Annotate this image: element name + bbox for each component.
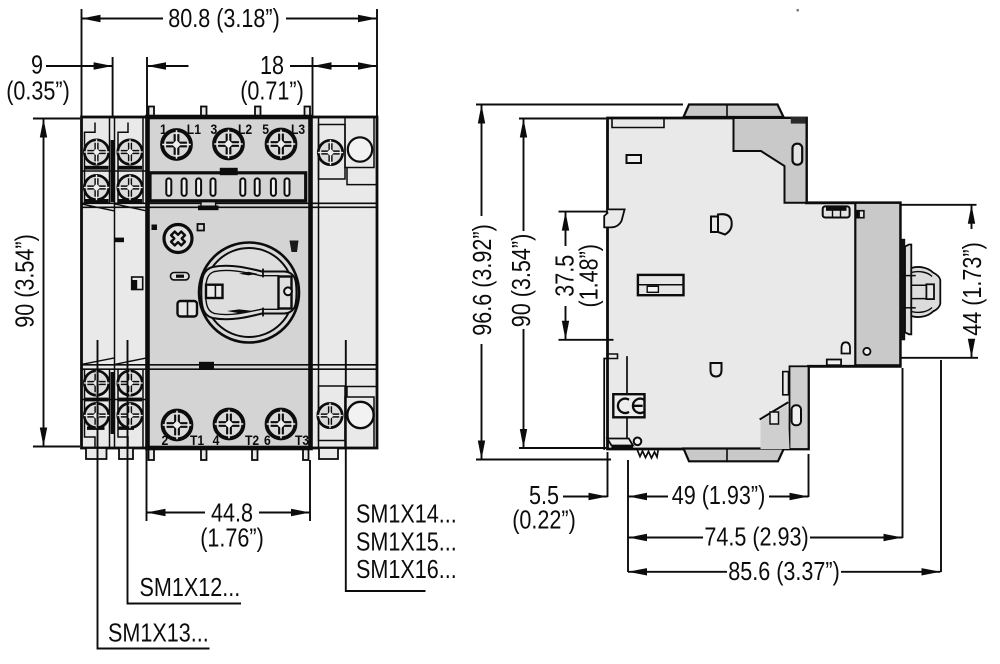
right col circle pocket top xyxy=(345,117,377,185)
screw col2 row4 xyxy=(118,403,142,427)
clip diagonal xyxy=(761,403,788,419)
arrow 49 right xyxy=(790,493,809,500)
CE letter E xyxy=(633,399,643,413)
upper-right dark panel xyxy=(734,118,807,203)
page artifact dot xyxy=(797,9,799,11)
dim 85.6 line xyxy=(628,571,941,573)
knob ledge bottom xyxy=(903,307,915,309)
svg-text:(0.71”): (0.71”) xyxy=(240,77,304,106)
terminal screw T1 xyxy=(163,411,192,440)
arrow 96.6 bottom xyxy=(478,441,485,460)
svg-text:(0.35”): (0.35”) xyxy=(6,77,70,106)
lower column slot xyxy=(792,405,801,425)
arrow 5.5 left xyxy=(589,493,608,500)
svg-text:L3: L3 xyxy=(291,122,305,138)
dim 74.5 line xyxy=(628,537,903,539)
clip dark region xyxy=(761,405,790,449)
dim 18 line xyxy=(290,65,377,67)
top pin 2 xyxy=(201,107,207,118)
cup icon mid xyxy=(711,363,722,377)
left col tiny dashes xyxy=(115,238,125,243)
rail release slider xyxy=(638,275,684,295)
column chamfer top left2 xyxy=(115,204,147,211)
dim 90 side extensions xyxy=(519,119,606,449)
arrow 90 side top xyxy=(520,119,527,138)
svg-text:49 (1.93”): 49 (1.93”) xyxy=(672,481,765,510)
central module panel xyxy=(148,117,311,448)
top pin 3 xyxy=(255,107,261,118)
lever tick top xyxy=(262,270,264,277)
arrow 96.6 top xyxy=(478,105,485,124)
housing cup icon xyxy=(842,342,851,353)
hook icon xyxy=(711,214,732,234)
bottom pin 1 xyxy=(149,448,155,460)
top-right slot xyxy=(793,144,803,165)
lower right column xyxy=(790,366,809,449)
screw col1 row4 xyxy=(84,403,108,427)
top pin 4 xyxy=(305,107,311,118)
svg-text:2: 2 xyxy=(162,432,169,448)
arrow 90 front bottom xyxy=(40,428,47,447)
arrow 85.6 left xyxy=(628,568,647,575)
dim 80.8 extension left xyxy=(81,9,83,117)
terminal screw L1 xyxy=(162,130,191,159)
vent slots group B xyxy=(240,178,289,196)
knob cone inner line bottom xyxy=(911,308,931,312)
clip bar front xyxy=(612,446,634,450)
double rail line upper xyxy=(82,203,378,207)
knob cone xyxy=(911,267,940,317)
terminal screw L3 xyxy=(267,130,296,159)
top bump xyxy=(684,105,784,118)
arrow 49 left xyxy=(628,493,647,500)
svg-text:SM1X13...: SM1X13... xyxy=(108,619,209,648)
dim 44 extensions xyxy=(901,205,979,358)
svg-text:L2: L2 xyxy=(238,122,252,138)
right column inner line xyxy=(318,117,320,448)
arrow 18 left xyxy=(313,62,332,69)
svg-text:(0.22”): (0.22”) xyxy=(512,505,576,534)
svg-text:L1: L1 xyxy=(187,122,201,138)
small latch box xyxy=(178,301,198,317)
lower column notch xyxy=(783,372,789,395)
arrow 37.5 top xyxy=(562,212,569,231)
screw col2 row1 xyxy=(118,140,142,164)
svg-text:90 (3.54”): 90 (3.54”) xyxy=(507,234,536,327)
right col circle top xyxy=(348,137,372,161)
dim 96.6 line xyxy=(481,105,483,460)
svg-text:(1.76”): (1.76”) xyxy=(200,524,264,553)
bottom pin 4 xyxy=(303,448,309,460)
lever tick bottom xyxy=(262,309,264,316)
leader SM1X12 xyxy=(128,340,242,604)
double rail line lower xyxy=(82,365,378,369)
arrow 44.8 right xyxy=(291,509,310,516)
knob housing light part top line xyxy=(807,202,901,204)
svg-text:74.5 (2.93): 74.5 (2.93) xyxy=(704,523,808,552)
housing tiny square xyxy=(856,211,864,218)
dim 5.5 extensions xyxy=(607,452,609,497)
bottom pin 2 xyxy=(201,448,207,460)
knob lever inner top line xyxy=(215,270,279,275)
lever dark sliver bottom xyxy=(227,309,252,313)
terminal screw T3 xyxy=(267,410,296,439)
terminal pocket col1 top xyxy=(85,117,110,203)
left col half-dark box xyxy=(132,277,143,290)
bottom bump divider xyxy=(726,449,728,461)
body small rect icon top left xyxy=(627,155,642,163)
svg-text:T2: T2 xyxy=(245,433,259,449)
arrow 9 right xyxy=(147,62,166,69)
right col screw pocket top xyxy=(319,125,346,180)
front body base plate xyxy=(82,117,378,448)
knob outer ring xyxy=(199,243,299,343)
black tab below bridge xyxy=(198,206,219,211)
arrow 74.5 left xyxy=(628,534,647,541)
dim 9 line xyxy=(46,65,189,67)
knob lever body xyxy=(201,266,296,320)
arrow 90 side bottom xyxy=(520,429,527,448)
svg-text:(1.48”): (1.48”) xyxy=(574,244,603,308)
clip bar 3d xyxy=(607,439,633,446)
dim 90 front ticks xyxy=(33,119,80,447)
arrow 90 front top xyxy=(40,119,47,138)
knob ledge top xyxy=(903,275,915,277)
din clip bottom edge xyxy=(604,359,607,450)
CE mark box xyxy=(613,394,644,417)
knob marker wedge xyxy=(290,241,299,253)
vent slots group A xyxy=(166,178,215,196)
svg-text:1: 1 xyxy=(160,121,167,137)
column divider line xyxy=(114,117,116,448)
svg-text:9: 9 xyxy=(31,51,43,80)
arrow 85.6 right xyxy=(922,568,941,575)
reset screw X xyxy=(164,225,192,253)
knob inner ring xyxy=(205,248,294,337)
column pocket dark bars bottom xyxy=(84,372,142,434)
svg-text:SM1X12...: SM1X12... xyxy=(140,573,241,602)
terminal pocket col2 top xyxy=(118,117,143,203)
bridge on upper double line xyxy=(201,201,216,209)
dim 85.6 extension xyxy=(940,360,942,572)
svg-text:T3: T3 xyxy=(295,433,309,449)
arrow 37.5 bottom xyxy=(562,321,569,340)
dim 49 line xyxy=(628,496,809,498)
svg-text:5: 5 xyxy=(262,121,269,137)
dim 44 line xyxy=(971,205,973,358)
svg-text:SM1X14...: SM1X14... xyxy=(356,500,457,529)
knob lever circle xyxy=(284,287,292,295)
svg-text:T1: T1 xyxy=(190,433,204,449)
svg-text:96.6 (3.92”): 96.6 (3.92”) xyxy=(468,224,497,335)
black tab on band top xyxy=(220,168,238,175)
clip inner edge line xyxy=(626,357,628,449)
knob housing dark part xyxy=(855,203,900,365)
dim 44.8 line xyxy=(147,512,311,514)
arrow 74.5 right xyxy=(884,534,903,541)
column pocket dark bars top xyxy=(84,140,142,203)
clip spring teeth xyxy=(638,451,659,459)
right col screw top xyxy=(318,140,342,164)
small pill with dashes xyxy=(171,273,190,280)
foot left 1 xyxy=(86,448,107,459)
dim 80.8 line xyxy=(82,18,378,20)
housing small rect xyxy=(827,360,841,366)
dim 90 front line xyxy=(43,119,45,447)
housing circle xyxy=(863,348,870,355)
column chamfer top left1 xyxy=(82,204,114,211)
terminal pocket col1 bottom xyxy=(85,369,110,448)
column chamfer bottom left2 xyxy=(115,358,147,364)
arrow 9 left xyxy=(94,62,113,69)
terminal screw T2 xyxy=(215,410,244,439)
knob hub lines xyxy=(911,285,926,298)
dim 80.8 extension right xyxy=(376,9,378,117)
vent slot band xyxy=(150,173,306,201)
right col circle pocket bottom xyxy=(345,387,377,449)
dim 96.6 extensions xyxy=(476,105,683,460)
svg-text:90 (3.54”): 90 (3.54”) xyxy=(11,234,40,327)
arrow 80.8 left xyxy=(82,15,101,22)
screw col2 row3 xyxy=(118,371,142,395)
arrow 18 right xyxy=(358,62,377,69)
terminal pocket col2 bottom xyxy=(118,369,143,448)
top-left recess xyxy=(612,118,664,128)
leader SM1X13 xyxy=(98,340,210,649)
right col screw bottom xyxy=(318,403,342,427)
body small filled square xyxy=(152,225,158,231)
svg-text:85.6 (3.37”): 85.6 (3.37”) xyxy=(728,557,839,586)
knob lever inner left curve xyxy=(206,272,215,314)
knob tip rect xyxy=(926,284,934,299)
foot left 2 xyxy=(119,448,133,459)
clip notch rect xyxy=(770,412,779,424)
knob ring black strip xyxy=(901,239,905,340)
svg-text:80.8 (3.18”): 80.8 (3.18”) xyxy=(168,4,279,33)
clip small circle xyxy=(634,438,642,446)
dim 5.5 line xyxy=(563,496,608,498)
right col circle bottom xyxy=(347,402,373,428)
screw col1 row1 xyxy=(84,140,108,164)
foot right xyxy=(319,448,338,459)
dim 90 side line xyxy=(523,119,525,449)
top pin 1 xyxy=(149,107,155,118)
dim 37.5 line xyxy=(565,212,567,340)
arrow 80.8 right xyxy=(358,15,377,22)
knob lever inner bottom line xyxy=(215,309,279,314)
pocket separator col bottom xyxy=(82,399,147,401)
top bump divider xyxy=(726,105,728,118)
body small open square xyxy=(198,224,205,231)
terminal screw L2 xyxy=(214,130,243,159)
bottom pin 3 xyxy=(252,448,258,460)
right col screw pocket bottom xyxy=(319,386,346,441)
screw col1 row3 xyxy=(84,371,108,395)
dim 44.8 extensions xyxy=(147,449,311,521)
side body main outline xyxy=(608,118,901,449)
column chamfer bottom left1 xyxy=(82,358,114,364)
din clip bottom step xyxy=(608,354,618,359)
bottom bump xyxy=(684,449,784,462)
knob lever left box xyxy=(206,285,223,298)
svg-text:SM1X16...: SM1X16... xyxy=(356,555,457,584)
knob lever right box xyxy=(279,277,292,309)
housing grill xyxy=(823,206,850,217)
dim 74.5 extensions xyxy=(628,368,903,572)
svg-text:3: 3 xyxy=(211,121,218,137)
arrow 44 bottom xyxy=(968,339,975,358)
dim 18 extension xyxy=(312,57,314,117)
svg-text:44 (1.73”): 44 (1.73”) xyxy=(958,242,987,335)
knob cone inner line top xyxy=(911,272,931,276)
knob base plate xyxy=(905,245,911,335)
leader SM1X14-16 xyxy=(346,340,426,591)
svg-text:6: 6 xyxy=(264,432,271,448)
corner dark tab xyxy=(791,117,806,124)
dim 9 extension lines xyxy=(113,57,147,117)
CE letter C xyxy=(618,399,628,413)
black tab on lower double line xyxy=(199,362,214,369)
pocket separator col top xyxy=(82,170,147,172)
svg-text:SM1X15...: SM1X15... xyxy=(356,528,457,557)
screw col2 row2 xyxy=(118,175,142,199)
din clip top hook xyxy=(604,209,624,227)
arrow 44 top xyxy=(968,205,975,224)
svg-text:4: 4 xyxy=(213,432,221,448)
arrow 44.8 left xyxy=(147,509,166,516)
dim 49 extension xyxy=(808,454,810,497)
dim 37.5 extensions xyxy=(559,212,614,340)
lever dark sliver top xyxy=(239,272,258,276)
screw col1 row2 xyxy=(84,175,108,199)
